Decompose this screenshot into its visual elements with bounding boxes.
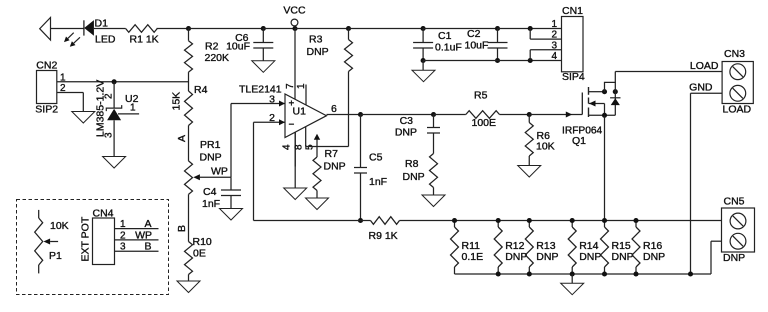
node C1 gnd [421, 58, 426, 63]
node CN1 pin2 branch [528, 26, 533, 31]
wire VCC to R3 node [295, 28, 349, 30]
CN5 screw 1 [730, 213, 746, 229]
svg-text:DNP: DNP [324, 161, 346, 173]
node R13 bottom [527, 271, 532, 276]
svg-text:DNP: DNP [395, 127, 417, 139]
svg-text:WP: WP [135, 229, 152, 241]
svg-text:6: 6 [331, 103, 337, 115]
resistor R12 [497, 221, 499, 228]
ground sense rail [571, 274, 573, 283]
wire R3 node to C1 [349, 28, 424, 30]
svg-text:PR1: PR1 [200, 139, 221, 151]
node Q1 drain [602, 89, 607, 94]
op-amp U1 body [285, 94, 327, 138]
diode U2 LM385 cathode lead [113, 82, 115, 108]
CN3 gnd wire [691, 92, 723, 94]
svg-text:LOAD: LOAD [690, 60, 719, 72]
ground R6 [518, 166, 541, 178]
svg-text:LOAD: LOAD [723, 104, 752, 116]
svg-text:1nF: 1nF [369, 176, 387, 188]
svg-text:R8: R8 [405, 158, 419, 170]
node R16 top [633, 218, 638, 223]
svg-text:DNP: DNP [403, 171, 425, 183]
svg-text:1: 1 [130, 102, 136, 113]
node C2 [495, 26, 500, 31]
connector CN1 [562, 17, 584, 72]
Q1 body arrow [589, 103, 605, 105]
svg-text:10K: 10K [536, 141, 555, 153]
node R12 top [496, 218, 501, 223]
svg-text:8: 8 [294, 144, 305, 150]
op-amp U1 pin3 wire [231, 103, 285, 105]
ground U2 [103, 157, 126, 169]
svg-text:7: 7 [285, 83, 296, 89]
trimmer PR1 [185, 161, 193, 195]
svg-text:10uF: 10uF [465, 40, 489, 52]
svg-text:LM385-1.2V: LM385-1.2V [95, 80, 107, 137]
resistor R16 [635, 221, 637, 228]
svg-text:1: 1 [60, 72, 66, 83]
ground CN2 [72, 112, 95, 124]
svg-text:0.1uF: 0.1uF [435, 42, 462, 54]
net flag arrow (left terminal) [40, 18, 51, 41]
svg-text:LED: LED [95, 34, 116, 46]
resistor R10 [185, 242, 193, 275]
op-amp U1 pin2 wire [254, 121, 286, 123]
wire C2 to CN1 pin1 [498, 28, 562, 30]
node C6 [261, 26, 266, 31]
ground U1 pins 4 8 [284, 188, 307, 200]
svg-text:SIP4: SIP4 [562, 71, 585, 83]
svg-text:10K: 10K [50, 220, 69, 232]
capacitor C4 [230, 177, 232, 190]
node C2 gnd [495, 58, 500, 63]
svg-text:4: 4 [282, 144, 293, 150]
node R3 [346, 26, 351, 31]
svg-text:1: 1 [551, 19, 557, 30]
svg-text:3: 3 [120, 242, 126, 253]
svg-text:4: 4 [551, 51, 557, 62]
node R2 junction [186, 26, 191, 31]
wire R9 to bank [400, 220, 455, 222]
svg-text:DNP: DNP [612, 251, 634, 263]
node U2 [112, 79, 117, 84]
node R14 bottom [570, 271, 575, 276]
svg-text:R3: R3 [309, 34, 323, 46]
U1 comp wire [306, 146, 349, 148]
Q1 channel segment drain [588, 87, 590, 95]
svg-text:P1: P1 [49, 250, 62, 262]
CN5 pin2 wire [710, 241, 712, 274]
resistor R6 [528, 115, 530, 123]
resistor R11 [454, 221, 456, 228]
svg-text:220K: 220K [205, 52, 230, 64]
CN4 pin3 wire [115, 250, 159, 252]
svg-text:B: B [176, 225, 188, 232]
node CN1 pin3 branch [528, 58, 533, 63]
CN3 screw 1 [730, 64, 746, 80]
ground R10 [177, 281, 200, 293]
svg-text:C3: C3 [400, 115, 414, 127]
svg-text:CN1: CN1 [562, 5, 583, 17]
node C5 [358, 112, 363, 117]
P1 wiper arrow [44, 239, 51, 245]
Q1 channel segment body [588, 98, 590, 104]
wire Q1 source down [604, 115, 606, 220]
svg-text:C4: C4 [203, 186, 217, 198]
svg-text:0E: 0E [193, 248, 206, 260]
svg-text:3: 3 [551, 40, 557, 51]
ground C6 [252, 61, 275, 73]
resistor R15 [604, 221, 606, 228]
VCC terminal [292, 26, 297, 31]
wire pin2 feedback [253, 122, 255, 220]
svg-text:2: 2 [120, 230, 126, 241]
wire sense bottom rail [455, 273, 712, 275]
svg-text:0.1E: 0.1E [462, 251, 484, 263]
ground C4 [220, 209, 243, 221]
svg-text:15K: 15K [171, 92, 183, 111]
node Q1 source [602, 113, 607, 118]
node C3 [431, 112, 436, 117]
svg-text:DNP: DNP [505, 251, 527, 263]
svg-text:R4: R4 [194, 84, 208, 96]
svg-text:R5: R5 [474, 90, 488, 102]
Q1 channel segment source [588, 108, 590, 118]
resistor R3 [348, 29, 350, 40]
svg-text:R2: R2 [205, 41, 219, 53]
svg-text:A: A [176, 135, 188, 142]
svg-text:WP: WP [211, 166, 228, 178]
CN5 screw 2 [730, 233, 746, 249]
svg-text:SIP2: SIP2 [35, 104, 58, 116]
svg-text:2: 2 [551, 30, 557, 41]
U1 pin1 stub [305, 85, 307, 105]
svg-text:C5: C5 [369, 152, 383, 164]
svg-text:Q1: Q1 [572, 135, 586, 147]
node R15 bottom [602, 271, 607, 276]
svg-text:TLE2141: TLE2141 [239, 84, 282, 96]
wire D1 to R1 [94, 28, 126, 30]
wire top rail to C6 [189, 28, 264, 30]
connector CN5 [722, 208, 755, 252]
resistor R5 [466, 111, 500, 119]
resistor R1 [126, 25, 158, 33]
ground R7 [306, 198, 329, 210]
node R12 bottom [496, 271, 501, 276]
resistor R8 [430, 154, 438, 188]
potentiometer P1 [38, 210, 40, 218]
svg-text:C2: C2 [467, 28, 481, 40]
connector CN2 [37, 71, 57, 104]
U1 pin8 wire [294, 132, 296, 166]
node R6 [527, 112, 532, 117]
U1 pin6 output wire [327, 114, 361, 116]
Q1 source stub [589, 114, 616, 116]
wire C1 to C2 [423, 28, 497, 30]
CN2 pin2 wire [57, 92, 84, 94]
svg-text:B: B [144, 241, 151, 253]
U1 pin7 wire [294, 29, 296, 100]
resistor R2 [188, 29, 190, 41]
svg-text:EXT POT: EXT POT [80, 216, 92, 261]
node R15 top [602, 218, 607, 223]
dashed box ext pot [17, 200, 169, 295]
CN1 pin2 wire [530, 38, 561, 40]
svg-text:3: 3 [269, 93, 275, 105]
svg-text:DNP: DNP [579, 251, 601, 263]
resistor R7 [316, 147, 318, 158]
svg-text:10uF: 10uF [226, 41, 250, 53]
Q1 drain stub [589, 91, 605, 93]
svg-text:CN3: CN3 [724, 48, 745, 60]
svg-text:R10: R10 [193, 236, 212, 248]
resistor R9 [371, 217, 400, 225]
wire load [615, 71, 722, 73]
svg-text:C1: C1 [438, 30, 452, 42]
resistor R13 [528, 221, 530, 228]
svg-text:CN5: CN5 [724, 196, 745, 208]
CN4 pin1 wire [115, 228, 159, 230]
wire C3 to R5 [434, 114, 466, 116]
wire gnd rail [423, 60, 561, 62]
U2 pin1 stub [118, 113, 139, 115]
svg-text:−: − [289, 120, 295, 131]
connector CN4 [93, 218, 115, 265]
capacitor C6 [262, 29, 264, 43]
svg-text:CN2: CN2 [36, 60, 57, 72]
svg-text:DNP: DNP [643, 251, 665, 263]
wire C6 to VCC [263, 28, 295, 30]
svg-text:100E: 100E [472, 117, 497, 129]
capacitor C1 [422, 29, 424, 43]
svg-text:1: 1 [120, 219, 126, 230]
CN3 screw 2 [730, 85, 746, 101]
node Q1 diode top [613, 89, 618, 94]
node R14 top [570, 218, 575, 223]
Q1 drain riser [605, 72, 616, 92]
svg-text:1nF: 1nF [202, 198, 220, 210]
U2 anode lead [113, 120, 115, 156]
LED D1 light arrows [68, 33, 74, 39]
capacitor C5 [360, 115, 362, 168]
svg-text:DNP: DNP [200, 152, 222, 164]
U1 pin4 wire [294, 132, 296, 188]
svg-text:D1: D1 [95, 18, 109, 30]
CN1 pin3 wire [530, 49, 561, 51]
diode U2 zener bar [106, 105, 121, 111]
PR1 wiper arrow [193, 174, 200, 180]
wire flag to D1 [51, 28, 84, 30]
node R11 top [452, 218, 457, 223]
U1 comp arrow [314, 134, 320, 140]
wire sense top rail [455, 220, 722, 222]
svg-text:GND: GND [689, 82, 713, 94]
node C5 bottom [358, 218, 363, 223]
CN4 pin2 wire [115, 239, 159, 241]
svg-text:A: A [144, 218, 151, 230]
node R13 top [527, 218, 532, 223]
U1 pin5 stub [305, 127, 307, 147]
svg-text:R1 1K: R1 1K [130, 34, 159, 46]
node C1 [421, 26, 426, 31]
svg-text:R7: R7 [325, 148, 339, 160]
svg-text:CN4: CN4 [93, 208, 114, 220]
svg-text:DNP: DNP [536, 251, 558, 263]
svg-text:DNP: DNP [307, 46, 329, 58]
svg-text:U1: U1 [293, 105, 307, 117]
transistor Q1 gate bar [581, 93, 583, 115]
node CN3 gnd join [688, 271, 693, 276]
diode U2 triangle [107, 109, 121, 121]
svg-text:VCC: VCC [283, 5, 306, 17]
svg-text:DNP: DNP [723, 252, 745, 264]
connector CN3 [722, 62, 753, 104]
resistor R14 [571, 221, 573, 228]
wire gate [529, 114, 582, 116]
resistor R4 [185, 91, 193, 126]
wire R1 to node [157, 28, 189, 30]
wire C5 to C3 [361, 114, 434, 116]
wire R5 to R6 node [500, 114, 530, 116]
svg-text:2: 2 [269, 112, 275, 124]
svg-text:R9 1K: R9 1K [369, 230, 398, 242]
Q1 body diode [614, 82, 616, 115]
LED D1 [83, 20, 85, 35]
capacitor C2 [497, 29, 499, 43]
ground R8 [422, 195, 445, 207]
svg-text:2: 2 [60, 83, 66, 94]
node R16 bottom [633, 271, 638, 276]
svg-text:1: 1 [296, 83, 307, 89]
CN2 pin1 wire [57, 81, 189, 83]
capacitor C3 [433, 115, 435, 128]
ground C1 [422, 61, 424, 71]
